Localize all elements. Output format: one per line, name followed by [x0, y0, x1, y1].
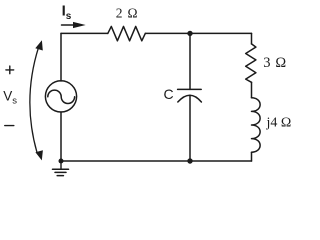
source sine wave [48, 90, 75, 103]
inductor j4ohm coils [252, 98, 261, 152]
polarity arc top arrowhead [35, 40, 43, 50]
wire left vertical lower [60, 112, 62, 161]
resistor 2ohm zigzag [108, 26, 146, 40]
wire right vertical lower [251, 152, 253, 161]
wire bottom [61, 160, 252, 162]
ground bar 3 [57, 175, 63, 177]
ground stub [60, 161, 62, 169]
polarity arc bottom arrowhead [35, 150, 43, 160]
plus sign [6, 66, 14, 74]
svg-text:C: C [164, 86, 174, 102]
svg-text:j4 Ω: j4 Ω [266, 116, 292, 131]
capacitor C top plate [178, 88, 202, 90]
wire top-right segment [145, 32, 251, 34]
svg-text:3 Ω: 3 Ω [263, 55, 286, 71]
ground bar 2 [55, 171, 66, 173]
node dot top middle [187, 31, 192, 36]
current arrow Is head [73, 22, 86, 28]
ground bar 1 [53, 168, 69, 170]
wire top-left segment [61, 32, 108, 34]
wire middle branch upper [189, 33, 191, 89]
svg-text:2 Ω: 2 Ω [116, 6, 139, 21]
resistor 3ohm zigzag [246, 44, 256, 82]
capacitor C bottom curved plate [178, 95, 202, 102]
node dot bottom middle [187, 158, 192, 163]
polarity reference arc [30, 48, 39, 153]
wire middle branch lower [189, 95, 191, 161]
current arrow Is shaft [62, 24, 76, 26]
node dot bottom left [59, 159, 64, 164]
source U1 circle [45, 81, 76, 112]
minus sign [5, 125, 14, 127]
wire right vertical middle [251, 82, 253, 98]
wire left vertical upper [60, 33, 62, 81]
wire right vertical upper [251, 33, 253, 44]
